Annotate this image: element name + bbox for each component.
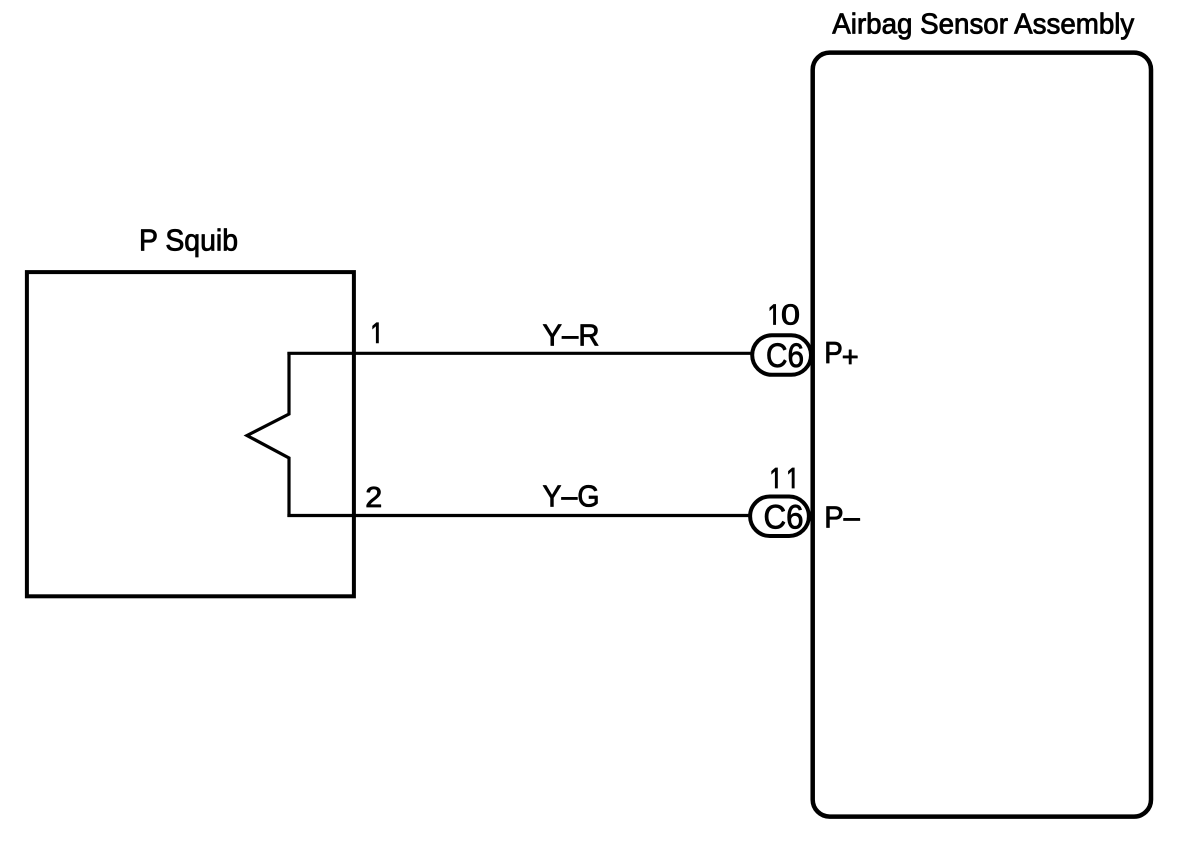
connector C6 pin 10 oval	[752, 335, 811, 375]
svg-text:P: P	[824, 336, 843, 370]
wire Y-G from P Squib pin 2 to C6 pin 11	[287, 514, 760, 517]
svg-text:2: 2	[365, 482, 382, 514]
connector C6 pin 11 oval	[750, 497, 809, 537]
component P Squib box	[27, 272, 354, 596]
svg-text:Airbag Sensor Assembly: Airbag Sensor Assembly	[832, 9, 1134, 41]
svg-text:+: +	[842, 342, 859, 374]
pin number 10 (digit 1)	[770, 305, 776, 325]
pin number 1	[373, 323, 379, 343]
wire Y-R from P Squib pin 1 to C6 pin 10	[287, 352, 760, 355]
pin number 11 (second digit 1)	[789, 468, 795, 488]
component Airbag Sensor Assembly box	[813, 53, 1151, 817]
svg-text:C6: C6	[764, 499, 804, 537]
svg-text:0: 0	[781, 300, 800, 332]
svg-text:P–: P–	[824, 501, 860, 535]
svg-text:Y–R: Y–R	[543, 318, 600, 352]
svg-text:P Squib: P Squib	[139, 224, 238, 258]
pin number 11 (first digit 1)	[772, 468, 778, 488]
squib ignitor element inside P Squib	[247, 352, 289, 517]
svg-text:C6: C6	[766, 337, 804, 375]
svg-text:Y–G: Y–G	[543, 480, 600, 514]
